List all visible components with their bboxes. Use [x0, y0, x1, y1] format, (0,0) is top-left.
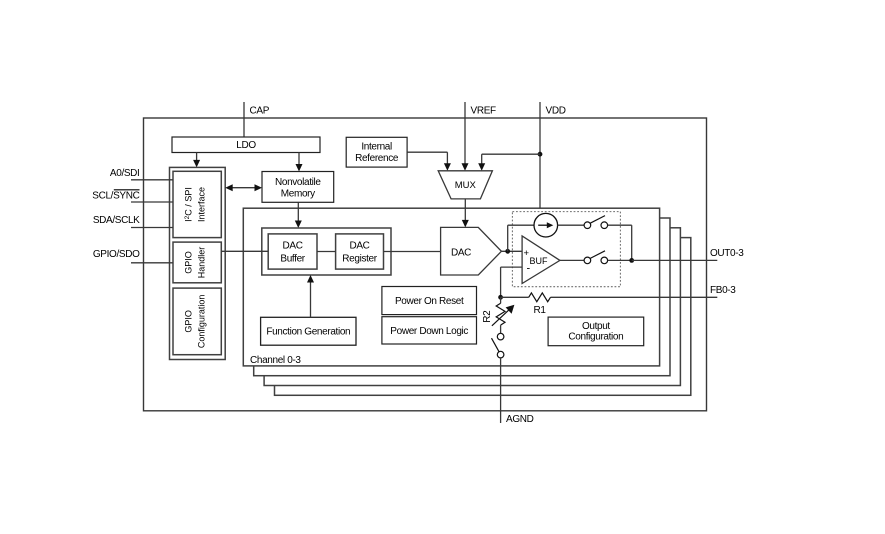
svg-text:VREF: VREF	[471, 106, 497, 117]
svg-text:DAC: DAC	[283, 241, 303, 252]
svg-text:Interface: Interface	[197, 187, 207, 222]
svg-text:Channel 0-3: Channel 0-3	[250, 355, 301, 366]
svg-text:OUT0-3: OUT0-3	[710, 248, 744, 259]
svg-text:Configuration: Configuration	[568, 332, 623, 343]
svg-text:DAC: DAC	[349, 241, 369, 252]
svg-text:GPIO: GPIO	[184, 251, 194, 274]
svg-text:BUF: BUF	[530, 256, 549, 266]
svg-text:Memory: Memory	[281, 189, 315, 200]
svg-text:AGND: AGND	[506, 414, 534, 425]
svg-text:FB0-3: FB0-3	[710, 285, 736, 296]
svg-text:Power Down Logic: Power Down Logic	[390, 326, 468, 337]
svg-text:Configuration: Configuration	[197, 295, 207, 349]
svg-text:GPIO: GPIO	[184, 310, 194, 333]
svg-text:SDA/SCLK: SDA/SCLK	[93, 215, 140, 226]
svg-text:Buffer: Buffer	[280, 254, 305, 265]
svg-text:LDO: LDO	[236, 140, 256, 151]
svg-text:Internal: Internal	[361, 141, 392, 152]
svg-text:Nonvolatile: Nonvolatile	[275, 177, 321, 188]
svg-text:Reference: Reference	[355, 153, 399, 164]
svg-text:A0/SDI: A0/SDI	[110, 168, 140, 179]
svg-text:Power On Reset: Power On Reset	[395, 296, 464, 307]
svg-text:Output: Output	[582, 321, 610, 332]
svg-text:GPIO/SDO: GPIO/SDO	[93, 249, 140, 260]
svg-text:VDD: VDD	[546, 106, 566, 117]
svg-text:R2: R2	[482, 310, 493, 323]
svg-text:R1: R1	[533, 305, 546, 316]
svg-text:Handler: Handler	[197, 247, 207, 279]
svg-text:I2C / SPI: I2C / SPI	[184, 187, 194, 222]
svg-text:SCL/SYNC: SCL/SYNC	[92, 191, 139, 202]
svg-text:Register: Register	[342, 254, 377, 265]
svg-text:DAC: DAC	[451, 247, 471, 258]
svg-text:CAP: CAP	[250, 106, 270, 117]
svg-text:Function Generation: Function Generation	[266, 326, 350, 337]
svg-text:MUX: MUX	[455, 180, 477, 191]
